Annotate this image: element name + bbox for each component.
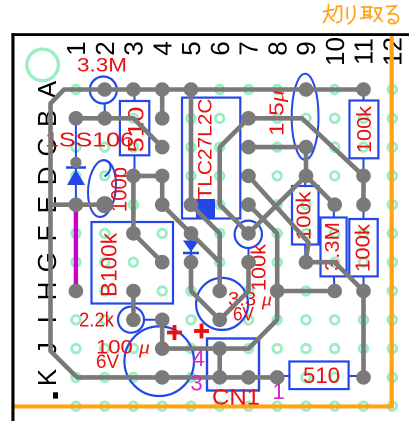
svg-text:4: 4 [193,346,205,371]
svg-text:B100k: B100k [97,232,122,297]
wire col5G down col5H diag to col6I [191,262,220,320]
column numbers 1-12 [61,37,407,66]
wire col7B-col6C-col6E-col7F [220,118,249,233]
capacitor 1.5u (col9) ellipse [292,74,319,160]
resistor 100k middle (col9) box [292,186,319,245]
CN1 pin numbers [191,346,285,404]
wire diag col3F-col4G (B100k) [133,233,162,262]
wire rowC col7-col9 [249,145,307,150]
wire: ground bus rowA/left-edge/rowK [51,90,364,378]
wire col3 rowD-rowF [131,176,136,234]
wire rowB col1-col3 + diag to col4C [76,118,162,147]
svg-text:I: I [32,316,62,323]
svg-text:10: 10 [320,37,350,66]
svg-text:2: 2 [90,41,120,55]
resistor 100k vertical mount (col7 rowF) circle [235,221,262,248]
wire diag col9D to col7F [249,176,307,234]
small junction dot col1 diode top [70,157,81,168]
U1 pin-1 end notch [196,199,215,218]
wire diag col7D to col9G [249,176,309,260]
wire col11 rowD-rowE [361,176,366,205]
wire col7G down diag to col6I [220,262,249,320]
svg-text:9: 9 [291,41,321,55]
svg-text:11: 11 [349,38,379,65]
perfboard hole grid [72,85,397,410]
solder pads (dots) [69,82,371,385]
wire rowH col8-col10 [277,289,335,294]
svg-text:510: 510 [303,363,340,388]
svg-text:100k: 100k [354,105,376,153]
resistor 100k #2 (col11) box [349,219,377,276]
capacitor 100u 6V (col4) big circle [124,326,194,396]
capacitor 100p (col2) ellipse [86,159,118,218]
svg-text:J: J [32,342,62,355]
svg-text:1SS106: 1SS106 [45,130,134,152]
board outline border [11,33,14,421]
wire rowD col3-col4 [133,174,162,179]
svg-text:H: H [32,282,62,301]
svg-text:100k: 100k [353,223,375,272]
svg-text:B: B [32,110,62,127]
svg-text:7: 7 [234,41,264,55]
svg-text:4: 4 [147,41,177,55]
svg-text:6V: 6V [233,305,254,326]
svg-text:6: 6 [205,41,235,55]
wire col6 rowJ-rowK (CN1) [217,349,222,378]
svg-text:1.5μ: 1.5μ [267,90,289,136]
wire col9 rowC-rowD [304,147,309,176]
wire col4 rowA-rowB [160,90,165,119]
svg-text:3: 3 [119,41,149,55]
svg-text:D: D [32,167,62,186]
resistor 510 bottom-right box [289,362,348,390]
capacitor 3.3u 6V (col6) circle [196,278,248,330]
wire col5E diag to col6F down to col6H [191,205,220,291]
svg-text:TLC27L2C: TLC27L2C [196,99,217,200]
wire col4 rowI-rowJ [160,320,165,349]
svg-text:3: 3 [191,371,203,396]
wire col3 rowH-rowI [131,291,136,320]
svg-text:1: 1 [273,379,285,404]
svg-text:CN1: CN1 [212,385,260,410]
svg-text:6V: 6V [96,352,119,373]
svg-text:3.3M: 3.3M [77,56,127,77]
svg-text:1: 1 [61,41,91,55]
wire col5 rowA-rowE [189,90,194,205]
svg-text:100k: 100k [294,190,316,240]
potentiometer B100k box [92,222,174,304]
cut line vertical (col 12) [390,36,394,408]
wire col4 rowD-rowE [160,176,165,205]
row L tick [53,392,58,398]
wire rowG col9-col10 diag to col11H [306,262,364,291]
wire col4E diag through col5F to col6G [162,205,220,263]
wire diag col9D to col10E [306,176,335,205]
wire col11 rowH-rowK [361,291,366,377]
diode D2 (col5 rows F-G) [190,233,192,262]
diode D1 1SS106 (col1, rows B-E) [75,118,77,204]
wire rowE bus-col2 [51,202,105,207]
mounting hole top-left [27,49,59,81]
wire col7E diag to col8F then down to col8H [249,205,278,291]
resistor R 3.3M (vertical mount, col2 rowA) circle [90,77,117,104]
row letters A-K [32,80,62,386]
plus mark 3.3u [194,324,209,339]
wire rowJ col4-col7 diag col8I up col8H [162,291,277,349]
magenta jumper col1 rowE-rowH [74,207,78,288]
svg-text:8: 8 [262,41,292,55]
resistor 3.3M (col10) box [321,218,347,277]
connector CN1 box [207,339,259,391]
plus mark 100u [167,325,182,340]
svg-text:2.2k: 2.2k [79,310,115,332]
cut line horizontal (row L) [15,404,394,408]
svg-text:G: G [32,252,62,272]
cut-out label (kiri-toru) [324,5,399,25]
resistor 510 (col3) box [120,101,149,155]
op-amp U1 TLC27L2C (DIP-8) outline [182,98,240,219]
svg-text:F: F [32,225,62,241]
svg-text:K: K [32,368,62,386]
svg-text:5: 5 [176,41,206,55]
resistor 2.2k (col3 rowI) circle [118,307,144,333]
wire rowB col7 to diag to col11D [249,118,364,176]
resistor 100k #1 (col11 top) box [350,101,379,159]
